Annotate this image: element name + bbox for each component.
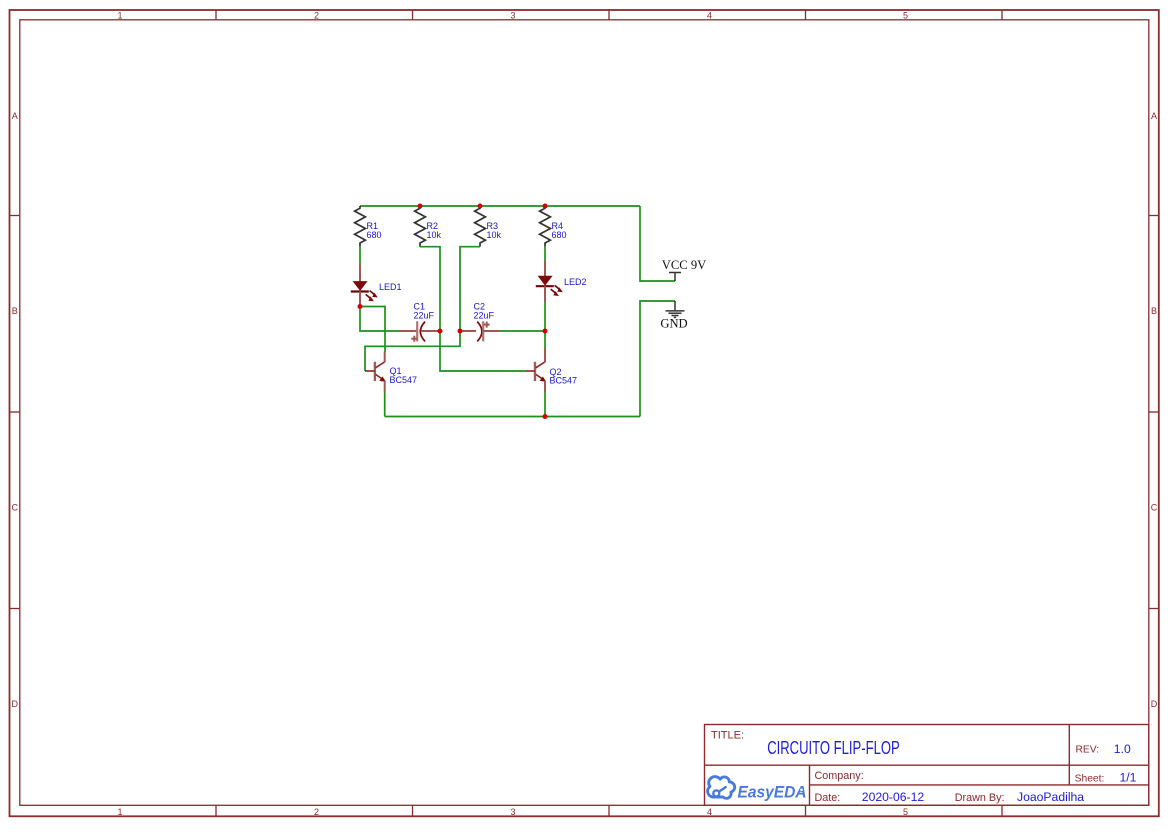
wire LED1 cathode to Q1 collector [360,307,385,353]
svg-text:4: 4 [707,11,712,21]
svg-text:B: B [12,306,18,316]
svg-text:1: 1 [117,807,122,817]
svg-text:22uF: 22uF [414,311,435,321]
junction node LED2 cathode [543,329,548,334]
ground symbol GND [660,301,687,330]
resistor R1 [355,206,382,247]
capacitor C2 22uF [460,302,500,342]
svg-text:4: 4 [707,807,712,817]
svg-text:CIRCUITO FLIP-FLOP: CIRCUITO FLIP-FLOP [767,737,900,758]
svg-text:JoaoPadilha: JoaoPadilha [1017,790,1084,804]
svg-text:1.0: 1.0 [1114,742,1131,756]
wire Q1 emitter down [384,392,386,417]
resistor R4 [540,206,567,247]
column labels top [117,11,908,21]
svg-text:LED2: LED2 [564,277,587,287]
LED D2 LED2 [536,261,587,302]
svg-text:3: 3 [510,11,515,21]
wire GND rail vertical [640,301,675,417]
capacitor C1 22uF [400,302,440,342]
svg-text:680: 680 [367,230,382,240]
LED D1 LED1 [351,265,402,307]
power flag VCC 9V [662,258,706,281]
junction node C1 right [438,329,443,334]
svg-text:BC547: BC547 [550,375,578,385]
svg-text:22uF: 22uF [474,311,495,321]
wire Q2 emitter down [544,392,546,417]
row labels right [1151,111,1158,709]
EasyEDA logo [708,777,807,802]
svg-text:Company:: Company: [815,770,864,782]
svg-text:2: 2 [314,807,319,817]
svg-text:B: B [1151,306,1157,316]
svg-text:A: A [12,111,18,121]
svg-text:Date:: Date: [815,792,841,804]
wire LED1 cathode to C1 left [360,307,401,332]
frame row ticks left [10,216,20,609]
wire Q2 collector [544,331,546,349]
svg-text:10k: 10k [487,230,502,240]
svg-text:VCC 9V: VCC 9V [662,258,706,272]
wire VCC rail to VCC symbol [640,206,675,281]
row labels left [12,111,19,709]
svg-text:3: 3 [510,807,515,817]
svg-text:10k: 10k [427,230,442,240]
svg-text:680: 680 [552,230,567,240]
resistor R2 [415,206,442,247]
svg-text:1: 1 [117,11,122,21]
junction node C2 left [458,329,463,334]
wire R1 to LED1 [359,247,361,266]
wire R2 bottom to base column [420,247,440,331]
frame column ticks top [216,10,1002,20]
wire R2 column to Q2 base [440,331,526,371]
svg-text:BC547: BC547 [390,375,418,385]
junction node LED1 cathode [358,304,363,309]
wire R3 column to Q1 base [365,331,460,371]
svg-text:REV:: REV: [1076,744,1100,755]
svg-text:5: 5 [903,807,908,817]
svg-text:C: C [1151,502,1158,512]
junction node R4 top [543,204,548,209]
svg-text:D: D [12,699,19,709]
resistor R3 [475,206,502,247]
frame column ticks bottom [216,805,1002,816]
svg-text:EasyEDA: EasyEDA [738,783,807,801]
svg-text:A: A [1151,111,1157,121]
svg-text:5: 5 [903,11,908,21]
svg-text:2020-06-12: 2020-06-12 [862,790,925,804]
transistor Q1 BC547 [365,352,417,393]
transistor Q2 BC547 [526,349,577,393]
svg-text:D: D [1151,699,1158,709]
wire bottom emitter rail [385,416,640,418]
title block frame [705,725,1149,806]
wire LED2 to junction [544,302,546,331]
frame row ticks right [1149,216,1159,609]
wire C2 right to LED2 cathode [500,330,545,332]
svg-text:C: C [12,502,19,512]
wire R3 bottom to column [460,247,480,331]
junction node R3 top [478,204,483,209]
junction node Q2 emitter bottom [543,414,548,419]
svg-text:LED1: LED1 [379,282,402,292]
wire R4 to LED2 [544,247,546,262]
svg-text:1/1: 1/1 [1120,771,1137,785]
svg-text:GND: GND [660,316,687,330]
svg-text:TITLE:: TITLE: [711,730,744,742]
svg-text:Sheet:: Sheet: [1075,773,1105,784]
wire VCC top rail [360,205,640,207]
column labels bottom [117,807,908,817]
svg-text:Drawn By:: Drawn By: [955,792,1005,804]
junction node R2 top [418,204,423,209]
svg-text:2: 2 [314,11,319,21]
